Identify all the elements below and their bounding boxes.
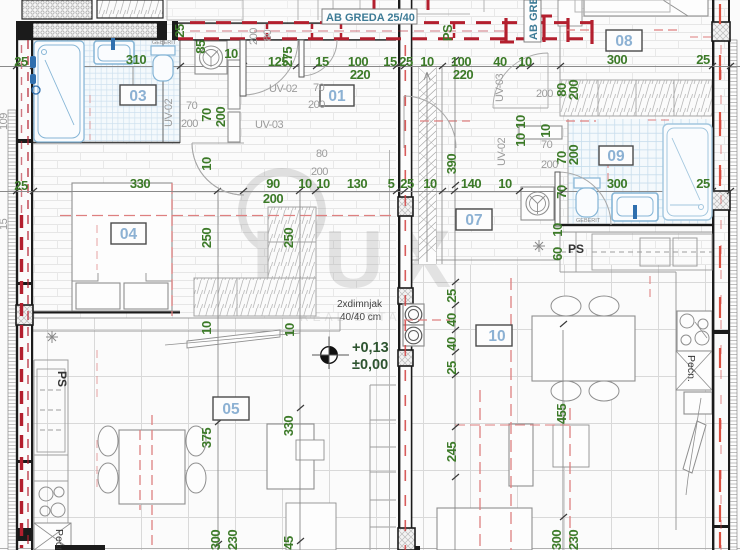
stairs hatch — [419, 66, 436, 264]
svg-text:250: 250 — [281, 228, 296, 248]
svg-text:200: 200 — [213, 107, 228, 127]
svg-text:10: 10 — [423, 176, 437, 191]
svg-text:15: 15 — [315, 54, 329, 69]
svg-text:GEBERIT: GEBERIT — [152, 40, 177, 46]
svg-text:90: 90 — [266, 176, 280, 191]
svg-text:200: 200 — [248, 28, 260, 45]
right stove — [677, 311, 712, 351]
svg-text:01: 01 — [328, 88, 346, 105]
svg-text:330: 330 — [130, 176, 150, 191]
top-left wall band — [16, 21, 167, 24]
bed room08 (top) — [584, 0, 708, 16]
svg-text:15: 15 — [0, 218, 10, 230]
svg-text:220: 220 — [350, 67, 370, 82]
svg-text:10: 10 — [488, 328, 505, 345]
svg-text:10: 10 — [420, 54, 434, 69]
svg-text:10: 10 — [199, 157, 214, 171]
left oven X-box — [34, 523, 71, 550]
svg-text:±0,00: ±0,00 — [352, 357, 388, 373]
wardrobe hatches — [194, 278, 316, 316]
svg-text:25: 25 — [14, 178, 28, 193]
bath09 bottom wall thick line — [560, 224, 712, 226]
right dining table — [532, 316, 635, 381]
svg-text:200: 200 — [566, 80, 581, 100]
svg-text:220: 220 — [453, 67, 473, 82]
left wall solid chunks — [16, 139, 33, 143]
svg-text:10: 10 — [498, 176, 512, 191]
svg-text:GEBERIT: GEBERIT — [576, 218, 601, 224]
svg-text:AB GRE: AB GRE — [528, 0, 540, 40]
right kitchen PS counter detail — [560, 232, 712, 272]
svg-text:+0,13: +0,13 — [352, 340, 389, 356]
svg-text:40: 40 — [444, 337, 459, 351]
svg-text:10: 10 — [513, 133, 528, 147]
svg-text:PS: PS — [568, 242, 584, 256]
svg-text:10: 10 — [550, 223, 565, 237]
taps bathroom03 wall — [30, 56, 40, 94]
svg-text:UV-02: UV-02 — [496, 138, 508, 166]
svg-text:140: 140 — [461, 176, 481, 191]
floor: right apartment upper (brick) — [404, 0, 730, 265]
room04 bottom wall zone — [33, 311, 340, 318]
svg-text:15: 15 — [383, 54, 397, 69]
top band double dashed — [190, 21, 592, 24]
right sink cabinet — [684, 392, 712, 414]
svg-text:2xdimnjak: 2xdimnjak — [337, 299, 383, 310]
top band thin black edges over red zone — [178, 22, 396, 23]
hall01/stairs lines — [404, 0, 442, 265]
svg-text:300: 300 — [549, 530, 564, 550]
svg-text:PS: PS — [55, 371, 69, 387]
svg-text:60: 60 — [550, 247, 565, 261]
right wall — [712, 0, 714, 550]
svg-text:230: 230 — [225, 530, 240, 550]
right oven X-box — [676, 351, 712, 390]
svg-text:10: 10 — [518, 54, 532, 69]
stove burners right — [680, 314, 709, 345]
door leaf right lower — [683, 398, 706, 495]
chairs left table — [98, 296, 619, 493]
toilet 03 — [151, 46, 175, 81]
svg-text:80: 80 — [316, 148, 328, 160]
floor: bathroom 09 blue tile — [568, 119, 712, 224]
bath09 top wall — [560, 80, 712, 116]
svg-text:25: 25 — [172, 24, 187, 38]
shelf over washer right apt — [519, 126, 562, 139]
svg-text:03: 03 — [129, 88, 147, 105]
bath09 bottom wall — [560, 224, 712, 232]
svg-text:310: 310 — [126, 52, 146, 67]
sink 03 — [94, 38, 134, 64]
right kitchen counter bottom — [404, 260, 676, 272]
svg-text:455: 455 — [554, 404, 569, 424]
svg-text:330: 330 — [281, 416, 296, 436]
svg-text:200: 200 — [311, 166, 328, 178]
svg-text:70: 70 — [186, 100, 198, 112]
svg-text:70: 70 — [313, 82, 325, 94]
svg-text:70: 70 — [199, 108, 214, 122]
floor: right living room grid — [404, 265, 730, 550]
svg-text:390: 390 — [444, 154, 459, 174]
svg-text:45: 45 — [281, 536, 296, 550]
elevation marker — [312, 337, 349, 370]
svg-text:275: 275 — [280, 47, 295, 67]
svg-text:10: 10 — [224, 46, 238, 61]
svg-text:10: 10 — [298, 176, 312, 191]
svg-text:05: 05 — [222, 401, 240, 418]
left stove burners — [39, 487, 65, 517]
svg-text:109: 109 — [0, 113, 10, 130]
svg-text:200: 200 — [536, 88, 553, 100]
svg-text:250: 250 — [199, 228, 214, 248]
toilet 09 — [574, 178, 600, 217]
svg-text:5: 5 — [388, 176, 395, 191]
svg-text:UV-03: UV-03 — [255, 119, 283, 131]
svg-text:25: 25 — [444, 289, 459, 303]
svg-text:10: 10 — [513, 115, 528, 129]
bathroom03 right wall lines — [163, 40, 180, 143]
rotated verticals — [199, 80, 581, 550]
floor: left living room grid — [33, 318, 396, 550]
svg-text:04: 04 — [120, 226, 138, 243]
left shelf slanted — [187, 330, 280, 348]
svg-text:Pećn.: Pećn. — [685, 355, 697, 382]
top strip upper-floor fragments — [22, 0, 92, 19]
svg-text:25: 25 — [696, 176, 710, 191]
bathtub 03 — [34, 41, 84, 142]
svg-text:70: 70 — [554, 185, 569, 199]
svg-text:25: 25 — [444, 361, 459, 375]
washer circles — [200, 46, 550, 215]
bed room04 — [72, 183, 172, 311]
chimney circles — [403, 304, 424, 346]
svg-text:08: 08 — [615, 33, 633, 50]
svg-text:Pećn: Pećn — [53, 529, 65, 550]
svg-text:200: 200 — [308, 99, 325, 111]
svg-text:40: 40 — [444, 313, 459, 327]
svg-text:09: 09 — [607, 148, 625, 165]
left apartment kitchen counter column — [370, 385, 396, 550]
svg-text:07: 07 — [465, 212, 482, 229]
right wall red ticks — [719, 4, 721, 548]
svg-text:25: 25 — [400, 176, 414, 191]
svg-text:10: 10 — [199, 321, 214, 335]
svg-text:10: 10 — [538, 124, 553, 138]
floor: top strip above left apartment — [165, 0, 396, 22]
right apartment counter along right wall — [675, 272, 677, 530]
svg-text:80: 80 — [262, 29, 274, 41]
washer right — [521, 187, 554, 220]
left wall verticals — [16, 21, 18, 550]
sink 09 — [612, 193, 658, 221]
svg-text:245: 245 — [444, 442, 459, 462]
svg-text:130: 130 — [347, 176, 367, 191]
svg-text:UV-02: UV-02 — [163, 99, 175, 127]
svg-text:25: 25 — [399, 54, 413, 69]
svg-text:UV-03: UV-03 — [494, 74, 506, 102]
floor: left apartment upper (brick) — [33, 22, 396, 318]
watermark DUX — [242, 172, 464, 324]
door leaf rects — [240, 40, 560, 226]
chairs right table — [551, 296, 581, 316]
svg-text:85: 85 — [193, 40, 208, 54]
svg-text:200: 200 — [541, 159, 558, 171]
left sideboard — [267, 424, 314, 489]
svg-text:230: 230 — [566, 530, 581, 550]
svg-text:200: 200 — [263, 191, 283, 206]
left kitchen column lower-left — [34, 360, 68, 550]
door arcs — [34, 40, 611, 347]
left PS cabinet detail — [37, 369, 65, 452]
svg-text:300: 300 — [607, 176, 627, 191]
svg-text:300: 300 — [208, 530, 223, 550]
svg-text:200: 200 — [181, 118, 198, 130]
left dining table — [119, 430, 185, 504]
right sofa low — [437, 508, 532, 550]
asterisks — [46, 240, 545, 343]
left hallway cabinets — [228, 60, 240, 109]
svg-text:10: 10 — [282, 323, 297, 337]
svg-text:300: 300 — [607, 52, 627, 67]
svg-text:25: 25 — [696, 52, 710, 67]
floor: bathroom 03 blue tile — [33, 40, 180, 143]
svg-text:25: 25 — [14, 54, 28, 69]
svg-text:UV-02: UV-02 — [269, 83, 297, 95]
shower 09 — [663, 124, 712, 220]
left wall bold dashes — [20, 215, 23, 548]
svg-text:AB GREDA 25/40: AB GREDA 25/40 — [326, 12, 415, 24]
red inside central wall — [404, 45, 406, 550]
svg-text:PS: PS — [440, 24, 455, 41]
wardrobe block outline left — [194, 278, 316, 316]
svg-text:375: 375 — [199, 428, 214, 448]
washer left — [195, 41, 227, 74]
AB GREDA labels — [322, 0, 541, 42]
svg-text:40: 40 — [493, 54, 507, 69]
svg-text:10: 10 — [316, 176, 330, 191]
svg-text:70: 70 — [541, 139, 553, 151]
verticals in band — [267, 24, 454, 38]
room04 bottom wall — [33, 312, 180, 314]
central wall — [400, 0, 411, 550]
svg-text:40/40 cm: 40/40 cm — [340, 312, 381, 323]
